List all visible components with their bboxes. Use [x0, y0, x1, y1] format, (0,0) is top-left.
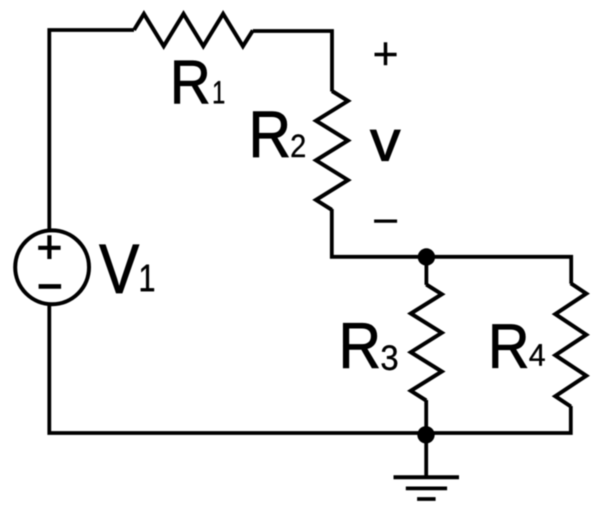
- label minus: [374, 220, 397, 223]
- wire: [253, 31, 332, 92]
- label v: [370, 130, 400, 161]
- wire ground stem: [424, 434, 428, 478]
- voltage source V1: [15, 230, 89, 304]
- resistor R2: [316, 91, 348, 210]
- label R3 "R": [343, 323, 378, 367]
- label V1 subscript 1: [141, 265, 154, 292]
- label R2 subscript 2: [292, 134, 305, 157]
- label R4 subscript 4: [530, 344, 545, 365]
- resistor R4: [555, 283, 586, 406]
- node A junction dot: [418, 248, 435, 265]
- label plus: [375, 42, 397, 65]
- wire: [332, 209, 571, 284]
- wire: [424, 257, 428, 285]
- ground: [394, 477, 460, 499]
- wire: [49, 303, 571, 433]
- resistor R3: [411, 285, 442, 401]
- label R4 "R": [493, 325, 527, 368]
- V1 minus sign: [39, 284, 62, 289]
- wire: [49, 30, 134, 231]
- V1 plus sign: [38, 235, 60, 259]
- wire: [424, 400, 428, 434]
- label R2 "R": [253, 112, 288, 157]
- label V1 "V": [99, 245, 139, 293]
- label R1 subscript 1: [214, 81, 224, 103]
- label R3 subscript 3: [382, 345, 398, 370]
- resistor R1: [134, 14, 253, 46]
- label R1 "R": [174, 61, 208, 104]
- node B junction dot: [417, 426, 434, 443]
